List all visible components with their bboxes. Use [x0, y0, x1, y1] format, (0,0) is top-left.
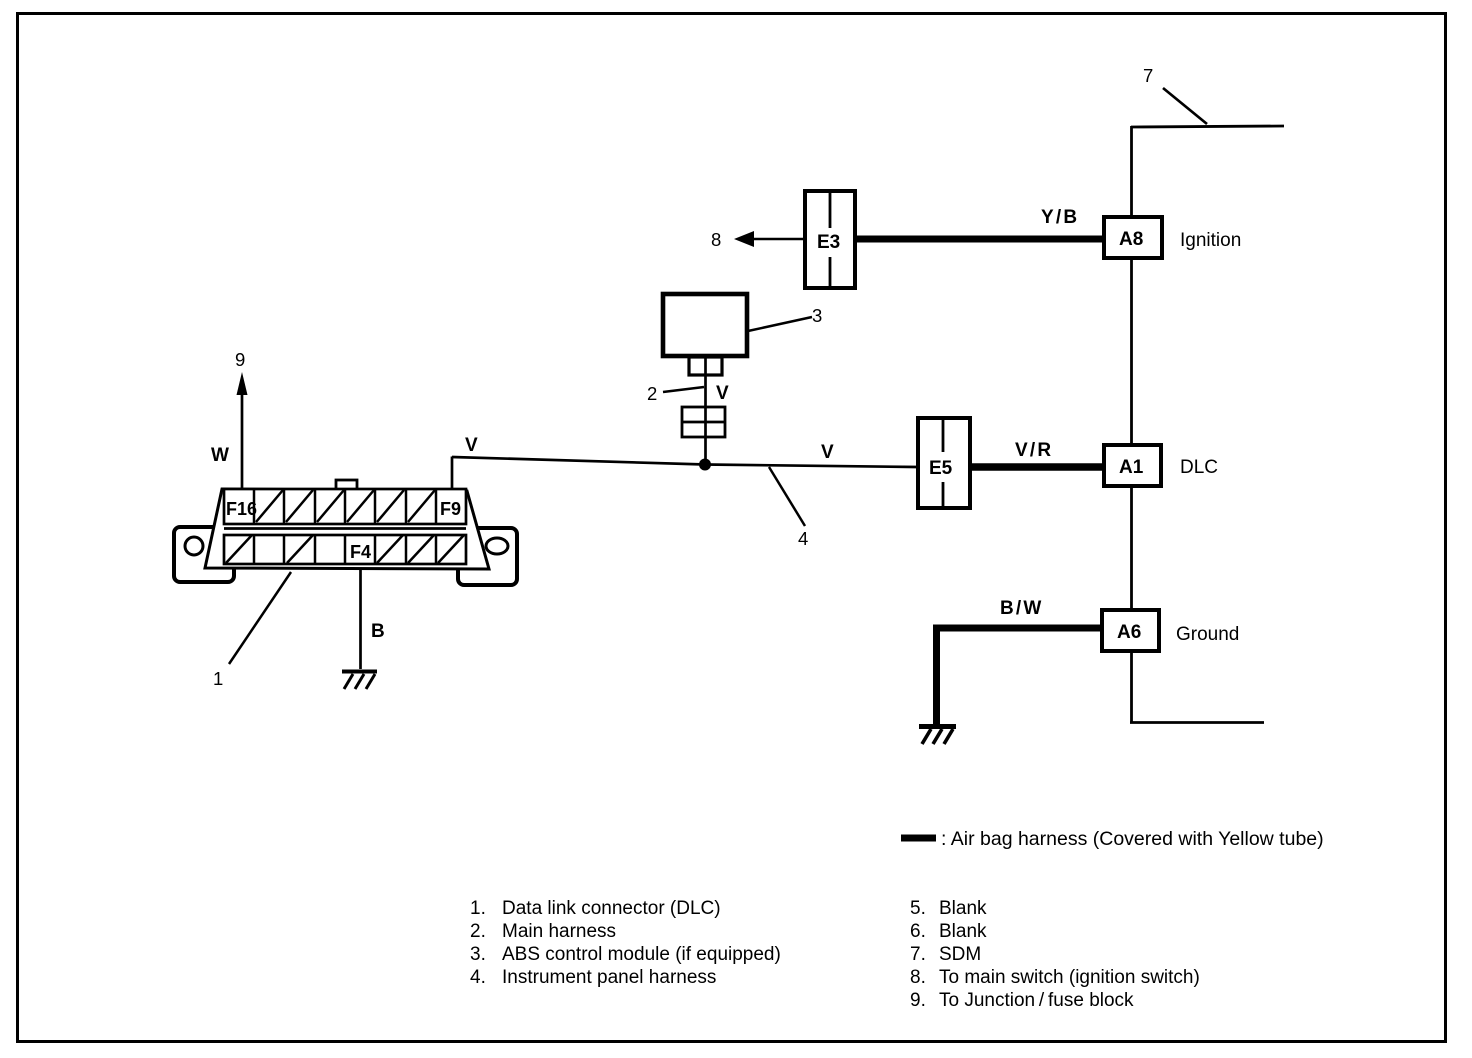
wire Y/B (air bag harness, thick)	[854, 236, 1105, 243]
connector E5	[918, 418, 970, 508]
svg-text:8.: 8.	[910, 967, 926, 988]
wire V/R (air bag harness, thick)	[970, 463, 1105, 470]
svg-text:F16: F16	[226, 499, 257, 519]
pin A8 (Ignition)	[1104, 217, 1162, 258]
svg-text:Blank: Blank	[939, 898, 987, 919]
node 7 leader	[1163, 88, 1207, 124]
junction node	[699, 459, 711, 471]
svg-text:4.: 4.	[470, 967, 486, 988]
node 3 leader	[748, 317, 812, 331]
svg-text:4: 4	[798, 528, 808, 549]
svg-text:SDM: SDM	[939, 944, 981, 965]
svg-text:A1: A1	[1119, 457, 1144, 478]
svg-text:Ground: Ground	[1176, 624, 1239, 645]
right mounting ear	[458, 528, 517, 585]
svg-text:A8: A8	[1119, 229, 1143, 250]
svg-text:7.: 7.	[910, 944, 926, 965]
svg-text:6.: 6.	[910, 921, 926, 942]
svg-text:9.: 9.	[910, 990, 926, 1011]
wire V from ABS	[704, 375, 707, 407]
svg-text:Y/B: Y/B	[1041, 207, 1079, 228]
wire: bus segment A8 to A1	[1130, 257, 1133, 446]
wire: bus segment A6 to bottom corner	[1130, 651, 1133, 723]
svg-text:V/R: V/R	[1015, 440, 1053, 461]
legend: air bag harness sample	[901, 835, 936, 842]
svg-text:8: 8	[711, 229, 721, 250]
svg-text:W: W	[211, 445, 231, 466]
svg-text:Instrument panel harness: Instrument panel harness	[502, 967, 716, 988]
svg-text:A6: A6	[1117, 622, 1141, 643]
node 1 leader	[229, 572, 291, 664]
svg-text:Blank: Blank	[939, 921, 987, 942]
svg-text:E3: E3	[817, 232, 840, 253]
svg-text:5.: 5.	[910, 898, 926, 919]
ABS connector tab	[689, 357, 722, 375]
pin hatches top row	[256, 490, 435, 522]
wire: junction to E5	[705, 465, 917, 468]
svg-text:F9: F9	[440, 499, 461, 519]
svg-text:To Junction / fuse block: To Junction / fuse block	[939, 990, 1134, 1011]
svg-text:3.: 3.	[470, 944, 486, 965]
svg-text:2.: 2.	[470, 921, 486, 942]
svg-text:To main switch (ignition switc: To main switch (ignition switch)	[939, 967, 1200, 988]
wire B to ground	[359, 569, 362, 669]
node 4 leader	[769, 467, 805, 526]
pin A1 (DLC)	[1104, 445, 1161, 486]
svg-text:Ignition: Ignition	[1180, 230, 1241, 251]
svg-text:1.: 1.	[470, 898, 486, 919]
pin grid	[224, 489, 466, 564]
connector E3	[805, 191, 855, 288]
svg-text:B/W: B/W	[1000, 598, 1044, 619]
ABS control module box (3)	[663, 294, 747, 356]
svg-text:DLC: DLC	[1180, 457, 1218, 478]
wire V: DLC to junction	[451, 457, 454, 490]
wire B/W (air bag harness, thick)	[933, 625, 1103, 632]
svg-text:1: 1	[213, 668, 223, 689]
svg-text:F4: F4	[350, 542, 371, 562]
node 2 leader	[663, 387, 704, 392]
svg-text:Data link connector (DLC): Data link connector (DLC)	[502, 898, 721, 919]
svg-text:B: B	[371, 621, 387, 642]
svg-text:7: 7	[1143, 65, 1153, 86]
ground (air bag harness)	[919, 727, 956, 745]
pin hatches bottom row	[226, 535, 464, 563]
svg-text:V: V	[465, 435, 480, 456]
svg-text:2: 2	[647, 383, 657, 404]
wire: top bus to SDM	[1131, 126, 1284, 127]
svg-text:E5: E5	[929, 458, 953, 479]
top tab	[336, 480, 357, 490]
ground (DLC)	[342, 672, 377, 690]
svg-text:Main harness: Main harness	[502, 921, 616, 942]
svg-text:V: V	[821, 442, 836, 463]
wire: bottom bus horizontal	[1130, 721, 1264, 724]
svg-text:V: V	[716, 383, 731, 404]
wire to junction/fuse block (9)	[241, 393, 244, 489]
wire down to junction	[704, 437, 707, 465]
svg-text:: Air bag harness (Covered wit: : Air bag harness (Covered with Yellow t…	[941, 828, 1324, 850]
inline connector (main harness joint)	[682, 407, 725, 437]
svg-text:ABS control module (if equippe: ABS control module (if equipped)	[502, 944, 781, 965]
connector body	[205, 489, 489, 569]
svg-text:3: 3	[812, 305, 822, 326]
left mounting ear	[174, 527, 234, 582]
pin A6 (Ground)	[1102, 610, 1159, 651]
wire to main switch (8) with arrow	[750, 238, 805, 241]
wire: bus segment top to A8	[1130, 126, 1133, 218]
wire: bus segment A1 to A6	[1130, 485, 1133, 611]
svg-text:9: 9	[235, 349, 245, 370]
